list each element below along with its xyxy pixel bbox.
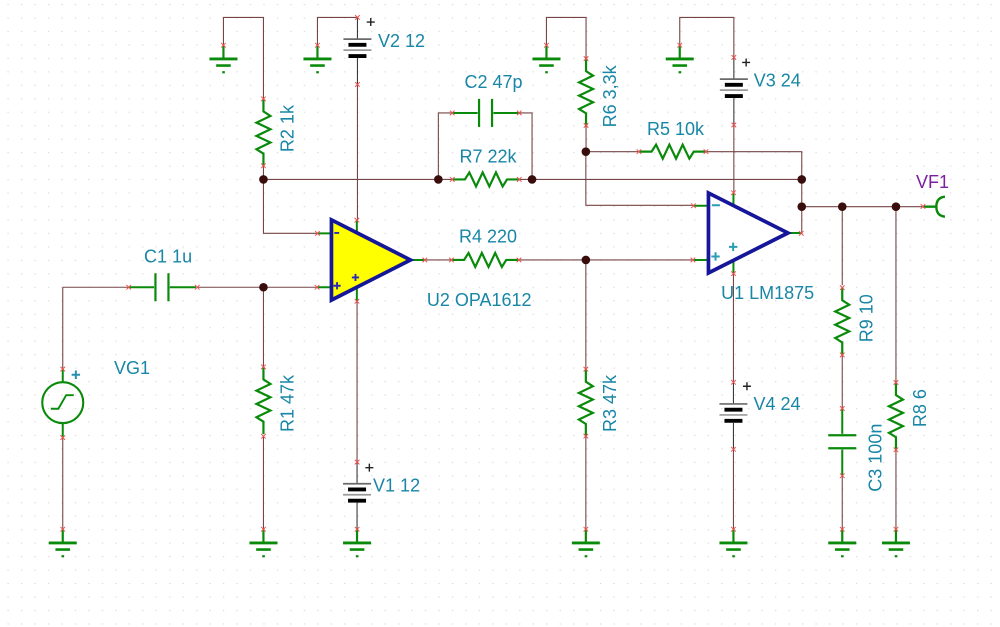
svg-text:R4 220: R4 220: [459, 226, 517, 246]
wire VG1 top to C1 left: [63, 287, 129, 369]
op-amp U2 plus mark: [333, 282, 340, 289]
wire R9 bottom to C3 top: [841, 355, 843, 409]
svg-text:R9 10: R9 10: [856, 294, 876, 342]
battery V4 plus sign: [743, 382, 751, 390]
battery V2 plus sign: [367, 18, 375, 26]
ground R3: [572, 529, 600, 556]
wire feedback net right: [519, 178, 802, 180]
ground V1: [343, 529, 371, 556]
wire C1 right to U2 plus: [197, 286, 317, 288]
capacitor C3: [828, 408, 856, 475]
junction node C1-R1: [259, 283, 268, 292]
ground top 4: [666, 45, 694, 72]
generator VG1: [42, 369, 83, 438]
junction node A: [259, 175, 268, 184]
ground V4: [719, 529, 747, 556]
svg-text:R6 3,3k: R6 3,3k: [600, 64, 620, 127]
resistor R6: [579, 59, 593, 126]
wire V4 minus to gnd: [732, 449, 734, 529]
junction output tap: [797, 202, 806, 211]
svg-text:R8 6: R8 6: [910, 389, 930, 427]
ground R1: [249, 529, 277, 556]
resistor R4: [451, 253, 518, 267]
wire VG1 bottom to gnd: [62, 438, 64, 530]
capacitor C2: [452, 99, 519, 127]
svg-text:V1 12: V1 12: [373, 475, 420, 495]
wire R2 bottom to node A to U2 minus: [263, 166, 317, 234]
svg-text:V3 24: V3 24: [754, 70, 801, 90]
wire node A feedback net left: [263, 178, 452, 180]
svg-text:VF1: VF1: [916, 172, 949, 192]
wire R5 right down to U1 out: [706, 152, 802, 234]
svg-text:VG1: VG1: [114, 358, 150, 378]
op-amp U2 power plus mark: [352, 274, 359, 281]
wire output net to VF1: [802, 206, 923, 208]
resistor R1: [256, 367, 270, 434]
battery V3: [720, 57, 748, 124]
wire gnd4 to R6 top: [546, 17, 586, 58]
wire R3 bottom to gnd: [585, 436, 587, 529]
wire R6 bottom to node B: [585, 125, 587, 151]
resistor R2: [256, 99, 270, 166]
svg-text:V2 12: V2 12: [378, 31, 425, 51]
svg-text:R2 1k: R2 1k: [277, 104, 297, 152]
wire node C to R1 top: [262, 287, 264, 367]
wire C2 left riser: [438, 113, 452, 180]
op-amp U2 pins: [317, 220, 425, 301]
svg-text:V4 24: V4 24: [753, 394, 800, 414]
wire gnd2 to V2 plus: [317, 17, 357, 45]
ground R8: [882, 529, 910, 556]
wire node B to R5 left: [586, 151, 639, 153]
capacitor C1: [129, 273, 196, 301]
pin x marks: [60, 15, 925, 531]
wire V3 minus to U1 top pin: [733, 125, 735, 193]
op-amp U1 minus mark: [712, 204, 720, 206]
junction R4-R3: [582, 256, 591, 265]
svg-text:C3 100n: C3 100n: [865, 424, 885, 492]
ground top 3: [532, 45, 560, 72]
junction C2 left: [434, 175, 443, 184]
wire R4 node down to R3 top: [585, 260, 587, 369]
wire U2 out to R4: [425, 259, 452, 261]
ground C3: [828, 529, 856, 556]
resistor R5: [639, 145, 706, 159]
op-amp U1 power plus mark: [729, 243, 737, 251]
generator VG1 plus sign: [72, 371, 80, 379]
junction feedback-output: [797, 175, 806, 184]
resistor R3: [579, 369, 593, 436]
wire output node to R8 top: [895, 207, 897, 383]
wire U2 bottom pin to V1 plus: [356, 301, 358, 462]
op-amp U2 body: [331, 220, 410, 300]
svg-text:R5 10k: R5 10k: [647, 119, 705, 139]
resistor R9: [835, 288, 849, 355]
wire R4 right to U1 plus: [519, 259, 693, 261]
wire gnd3 to V3 plus: [680, 17, 734, 57]
op-amp U1 body: [708, 193, 788, 273]
ground top 1: [209, 45, 237, 72]
svg-text:R1 47k: R1 47k: [277, 374, 297, 432]
wire U1 bottom pin to V4 plus: [732, 274, 734, 383]
battery V2: [343, 17, 371, 84]
junction C2 right: [528, 175, 537, 184]
resistor R7: [452, 172, 519, 186]
wire gnd1 to R2 top: [223, 17, 263, 98]
probe VF1: [923, 197, 945, 217]
svg-text:R3 47k: R3 47k: [600, 374, 620, 432]
wire C3 bottom to gnd: [841, 476, 843, 530]
op-amp U1 plus mark: [711, 252, 719, 260]
battery V3 plus sign: [742, 58, 750, 66]
svg-text:R7 22k: R7 22k: [459, 146, 517, 166]
battery V1 plus sign: [365, 464, 373, 472]
wire V2 minus to U2 top pin: [356, 84, 358, 220]
wire R1 bottom to gnd: [262, 436, 264, 529]
junction R8 top: [892, 202, 901, 211]
resistor R8: [889, 382, 903, 449]
battery V4: [719, 382, 747, 449]
svg-text:C2 47p: C2 47p: [464, 72, 522, 92]
wire C2 right riser: [519, 113, 532, 180]
svg-text:U1 LM1875: U1 LM1875: [721, 283, 814, 303]
wire node B down to U1 minus: [586, 152, 694, 206]
wire R8 bottom to gnd: [895, 450, 897, 530]
op-amp U2 minus mark: [334, 232, 339, 234]
junction R9 top: [838, 202, 847, 211]
battery V1: [343, 462, 371, 529]
junction node B: [582, 147, 591, 156]
wire output node to R9 top: [841, 207, 843, 286]
ground VG1: [49, 529, 77, 556]
ground top 2: [303, 45, 331, 72]
op-amp U1 pins: [693, 193, 801, 274]
svg-text:U2 OPA1612: U2 OPA1612: [427, 290, 532, 310]
svg-text:C1 1u: C1 1u: [144, 246, 192, 266]
